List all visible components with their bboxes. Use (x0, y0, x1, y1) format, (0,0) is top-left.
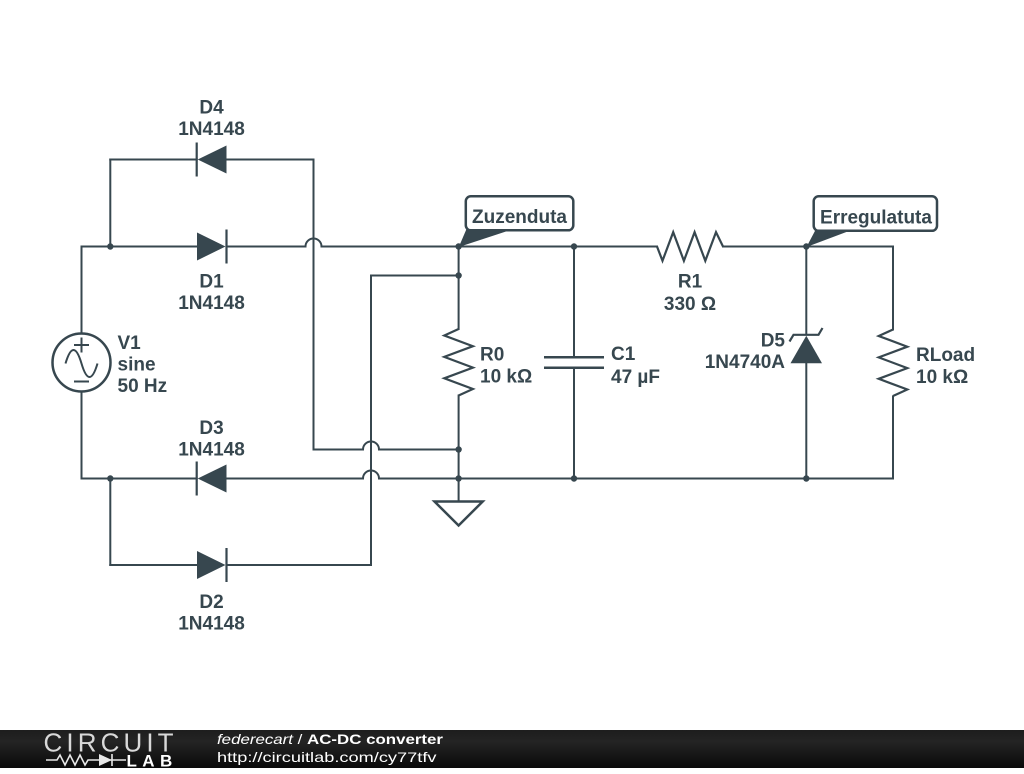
svg-text:330 Ω: 330 Ω (664, 294, 716, 315)
svg-text:D2: D2 (199, 592, 223, 613)
node dot D5 bottom (803, 475, 809, 481)
resistor RLoad (vertical) (879, 330, 908, 397)
wire D4 right segment to right vertical (227, 159, 314, 161)
node dot Zuzenduta (455, 243, 461, 249)
svg-text:Erregulatuta: Erregulatuta (820, 207, 932, 228)
wire D1 anode segment (110, 246, 197, 248)
wire D3 left segment (110, 478, 196, 480)
wire D4 left segment (110, 159, 196, 161)
C1 labels (611, 344, 660, 388)
resistor R1 (horizontal) (657, 232, 723, 261)
R0 labels (480, 344, 532, 387)
node dot D2-R0 junction (455, 272, 461, 278)
wire D5 bottom lead (805, 363, 807, 478)
svg-text:V1: V1 (118, 333, 142, 354)
capacitor C1 (544, 357, 604, 367)
wire node A up to D4 branch (109, 160, 111, 247)
svg-text:D4: D4 (199, 97, 224, 118)
svg-text:D1: D1 (199, 271, 224, 292)
node dot B (V1-/D3/D2) (107, 475, 113, 481)
node dot ground rail (455, 475, 461, 481)
diode D2 (pointing right) (197, 548, 227, 582)
svg-text:RLoad: RLoad (916, 345, 975, 366)
ground (435, 502, 483, 526)
wire D3 right segment with hop over x371 (227, 471, 459, 479)
wire C1 node to R1 left (574, 246, 657, 248)
zener diode D5 (790, 328, 823, 363)
node dot A (V1+/D1/D4) (107, 243, 113, 249)
D3 labels (178, 418, 245, 461)
wire D2 left segment (110, 564, 197, 566)
node dot C1 bottom (571, 475, 577, 481)
wire D5 bottom to RLoad bottom (806, 397, 893, 479)
footer url (217, 749, 436, 765)
svg-text:D3: D3 (199, 418, 223, 439)
svg-text:1N4148: 1N4148 (178, 613, 245, 634)
diode D4 (pointing left) (197, 143, 227, 177)
V1 labels (118, 333, 168, 397)
wire V1 bottom to bottom rail (82, 392, 111, 479)
wire V1 top to node A (82, 247, 110, 334)
footer title (217, 731, 443, 747)
D5 labels (705, 330, 786, 373)
wire R0 bottom to ground node (458, 396, 460, 502)
wire D2 cathode up to node on R0 branch (371, 276, 459, 566)
svg-text:LAB: LAB (127, 751, 178, 769)
svg-text:R1: R1 (678, 271, 703, 292)
D2 labels (178, 592, 245, 635)
svg-text:10 kΩ: 10 kΩ (916, 367, 968, 388)
node dot C1 top (571, 243, 577, 249)
wire y449 from D4 vertical to R0 bottom with hop over x371 (314, 442, 459, 450)
svg-text:sine: sine (118, 354, 156, 375)
flag Erregulatuta (807, 196, 938, 247)
svg-text:1N4740A: 1N4740A (705, 352, 786, 373)
svg-text:D5: D5 (761, 330, 786, 351)
wire C1 bottom lead (573, 368, 575, 479)
svg-text:1N4148: 1N4148 (178, 293, 245, 314)
wire Erregulatuta node to RLoad top (806, 247, 893, 330)
wire D1 cathode segment with hop over x313.5 (227, 239, 459, 247)
wire R1 right to Erregulatuta node (723, 246, 806, 248)
svg-text:10 kΩ: 10 kΩ (480, 366, 532, 387)
wire D2 right segment (227, 564, 372, 566)
CircuitLab logo (44, 727, 178, 770)
flag Zuzenduta (459, 196, 574, 247)
R1 labels (664, 271, 716, 315)
diode D1 (pointing right) (197, 230, 227, 264)
svg-text:1N4148: 1N4148 (178, 119, 245, 140)
resistor R0 (vertical) (444, 329, 473, 396)
node dot Erregulatuta (803, 243, 809, 249)
wire D5 top lead (805, 247, 807, 335)
wire right vertical D4-anode down to y449 (313, 160, 315, 450)
D1 labels (178, 271, 245, 314)
wire C1 bottom to D5 bottom (574, 478, 806, 480)
wire C1 top lead (573, 247, 575, 358)
node dot y449 R0 bottom (455, 446, 461, 452)
svg-text:R0: R0 (480, 344, 504, 365)
wire main node to C1 top node (459, 246, 574, 248)
RLoad labels (916, 345, 975, 388)
svg-text:C1: C1 (611, 344, 636, 365)
svg-text:Zuzenduta: Zuzenduta (472, 207, 567, 228)
svg-text:50 Hz: 50 Hz (118, 376, 168, 397)
diode D3 (pointing left) (197, 462, 227, 496)
footer bar (0, 730, 1024, 769)
wire R0 branch from main node (458, 247, 460, 330)
wire node B down to D2 branch (109, 479, 111, 566)
wire bottom rail to C1 bottom (459, 478, 574, 480)
voltage source V1 (53, 334, 111, 392)
svg-text:1N4148: 1N4148 (178, 439, 245, 460)
svg-text:47 µF: 47 µF (611, 367, 660, 388)
D4 labels (178, 97, 245, 139)
